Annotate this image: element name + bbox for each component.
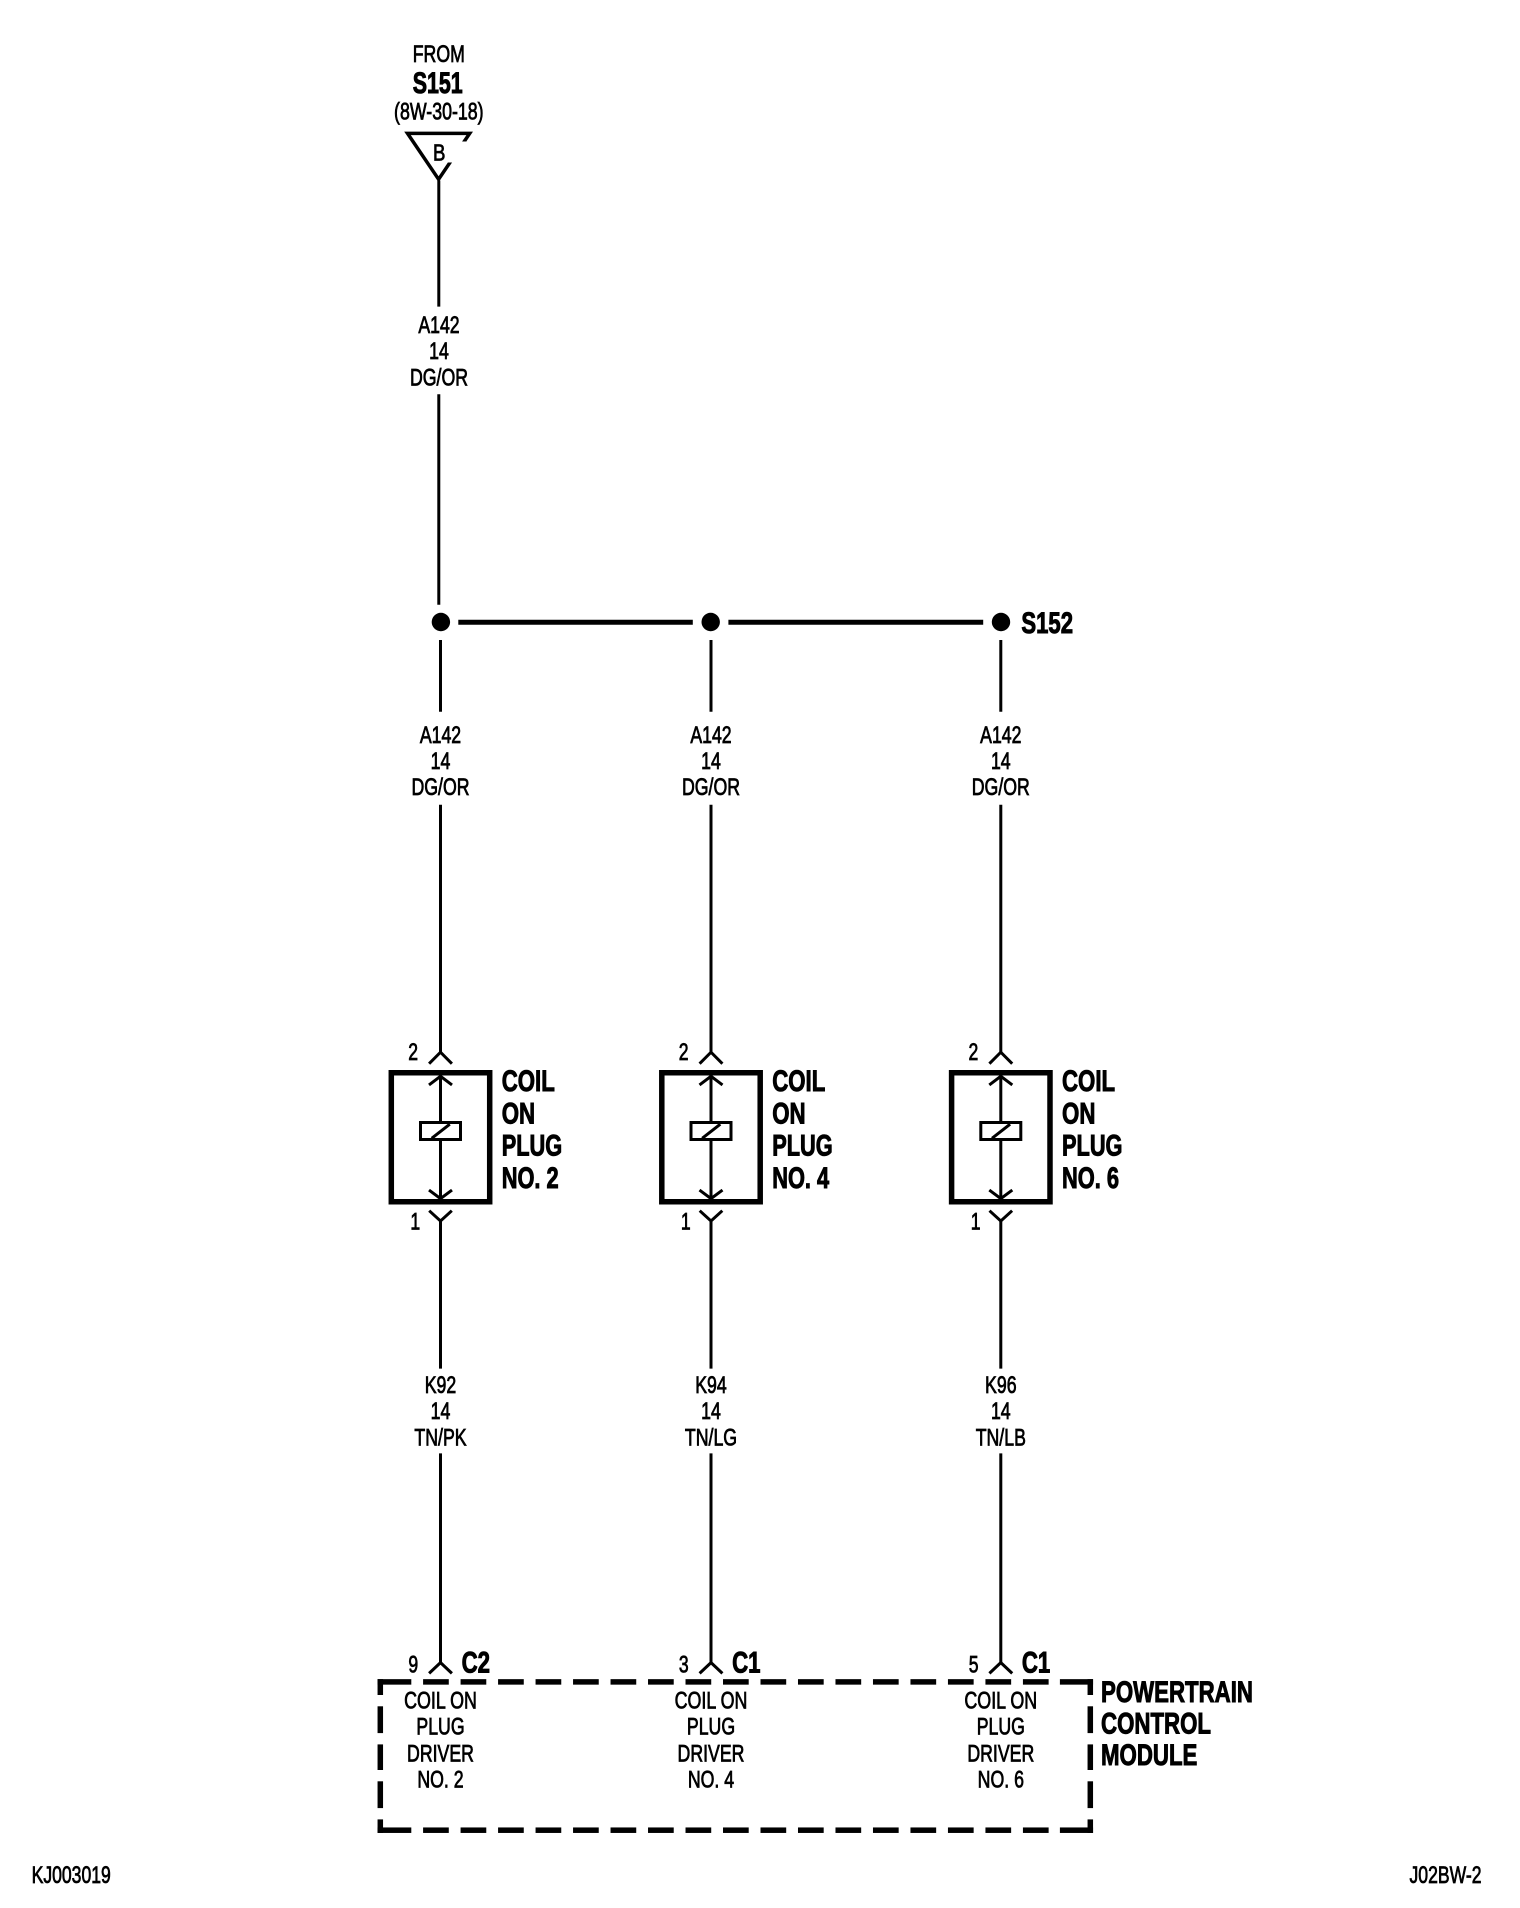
svg-text:C1: C1 (732, 1647, 760, 1680)
svg-text:DG/OR: DG/OR (682, 774, 740, 801)
svg-text:PLUG: PLUG (687, 1714, 735, 1741)
svg-text:2: 2 (679, 1039, 689, 1066)
connector half (inside bottom) col2 (700, 1190, 723, 1199)
coil element symbol col2 (691, 1123, 731, 1140)
svg-text:A142: A142 (980, 722, 1021, 749)
internal wire bottom col2 (710, 1141, 713, 1200)
wire bus segment dot2-dot3 (728, 620, 983, 625)
connector half (outside bottom) col3 (990, 1211, 1013, 1221)
svg-text:PLUG: PLUG (977, 1714, 1025, 1741)
svg-text:KJ003019: KJ003019 (32, 1862, 111, 1889)
wire into PCM col1 (439, 1453, 442, 1662)
PCM connector half col1 (429, 1663, 452, 1674)
wire to PCM col1 (439, 1221, 442, 1369)
powertrain control module dashed box (378, 1679, 412, 1685)
svg-text:COIL: COIL (772, 1065, 825, 1098)
svg-text:1: 1 (681, 1209, 691, 1236)
connector half (outside top) col1 (429, 1052, 452, 1064)
svg-text:3: 3 (679, 1651, 689, 1678)
junction dot at column 2 (702, 613, 720, 631)
connector half (inside top) col3 (989, 1076, 1012, 1085)
svg-text:TN/PK: TN/PK (414, 1424, 467, 1451)
svg-text:S152: S152 (1021, 607, 1073, 640)
svg-text:FROM: FROM (413, 41, 465, 68)
off-page connector triangle B (408, 133, 470, 179)
svg-text:COIL ON: COIL ON (404, 1687, 477, 1714)
coil on plug no. 6 box (952, 1073, 1050, 1202)
svg-text:14: 14 (991, 748, 1011, 775)
svg-text:5: 5 (969, 1651, 979, 1678)
connector half (inside top) col2 (700, 1076, 723, 1085)
svg-text:1: 1 (410, 1209, 420, 1236)
svg-text:POWERTRAIN: POWERTRAIN (1101, 1676, 1253, 1709)
coil on plug no. 4 box (662, 1073, 760, 1202)
internal wire top col2 (710, 1076, 713, 1122)
svg-text:A142: A142 (420, 722, 461, 749)
wire to PCM col2 (710, 1221, 713, 1369)
connector half (outside bottom) col2 (700, 1211, 723, 1221)
wire down to coil col1 (439, 805, 442, 1052)
internal wire bottom col1 (439, 1141, 442, 1200)
svg-text:TN/LG: TN/LG (685, 1424, 737, 1451)
svg-text:CONTROL: CONTROL (1101, 1708, 1211, 1741)
svg-text:DRIVER: DRIVER (678, 1741, 745, 1768)
svg-text:NO. 4: NO. 4 (772, 1162, 829, 1195)
wire down to splice S152 (437, 394, 440, 605)
connector half (inside top) col1 (429, 1076, 452, 1085)
svg-text:(8W-30-18): (8W-30-18) (394, 99, 484, 126)
svg-text:C1: C1 (1022, 1647, 1050, 1680)
internal wire top col3 (999, 1076, 1002, 1122)
svg-text:NO. 4: NO. 4 (688, 1766, 734, 1793)
svg-text:MODULE: MODULE (1101, 1739, 1197, 1772)
svg-text:A142: A142 (418, 312, 459, 339)
svg-text:2: 2 (408, 1039, 418, 1066)
svg-text:1: 1 (971, 1209, 981, 1236)
junction dot S152 at column 3 (992, 613, 1010, 631)
wire from connector B down (437, 181, 440, 307)
wire down to coil col2 (710, 805, 713, 1052)
svg-text:K92: K92 (425, 1372, 457, 1399)
svg-text:B: B (433, 139, 445, 165)
junction dot at column 1 (432, 613, 450, 631)
internal wire top col1 (439, 1076, 442, 1122)
PCM connector half col2 (700, 1663, 723, 1674)
connector half (inside bottom) col1 (429, 1190, 452, 1199)
svg-text:COIL: COIL (502, 1065, 555, 1098)
svg-text:2: 2 (969, 1039, 979, 1066)
svg-text:A142: A142 (690, 722, 731, 749)
svg-text:14: 14 (701, 1398, 721, 1425)
wire bus segment dot1-dot2 (458, 620, 693, 625)
PCM connector half col3 (989, 1663, 1012, 1674)
svg-text:COIL ON: COIL ON (675, 1687, 748, 1714)
svg-text:DRIVER: DRIVER (407, 1741, 474, 1768)
svg-text:PLUG: PLUG (416, 1714, 464, 1741)
svg-text:NO. 2: NO. 2 (502, 1162, 559, 1195)
svg-text:ON: ON (502, 1097, 535, 1130)
coil element symbol col3 (981, 1123, 1021, 1140)
svg-text:14: 14 (431, 1398, 451, 1425)
svg-text:ON: ON (772, 1097, 805, 1130)
svg-text:NO. 6: NO. 6 (978, 1766, 1024, 1793)
svg-text:NO. 2: NO. 2 (417, 1766, 463, 1793)
wire below splice, column 1 (439, 640, 442, 712)
svg-text:PLUG: PLUG (772, 1130, 833, 1163)
connector half (outside top) col3 (989, 1052, 1012, 1064)
wire into PCM col3 (999, 1453, 1002, 1662)
svg-text:S151: S151 (413, 67, 463, 100)
svg-text:DG/OR: DG/OR (972, 774, 1030, 801)
svg-text:14: 14 (991, 1398, 1011, 1425)
wire down to coil col3 (999, 805, 1002, 1052)
connector half (outside top) col2 (700, 1052, 723, 1064)
svg-text:PLUG: PLUG (1062, 1130, 1123, 1163)
svg-text:K96: K96 (985, 1372, 1017, 1399)
coil element symbol col1 (421, 1123, 461, 1140)
svg-text:C2: C2 (462, 1647, 490, 1680)
svg-text:14: 14 (431, 748, 451, 775)
svg-text:14: 14 (701, 748, 721, 775)
connector half (outside bottom) col1 (429, 1211, 452, 1221)
svg-text:COIL ON: COIL ON (964, 1687, 1037, 1714)
wire below splice, column 3 (999, 640, 1002, 712)
coil on plug no. 2 box (391, 1073, 489, 1202)
svg-text:J02BW-2: J02BW-2 (1410, 1862, 1482, 1889)
svg-text:14: 14 (429, 338, 449, 365)
svg-text:9: 9 (408, 1651, 418, 1678)
svg-text:PLUG: PLUG (502, 1130, 563, 1163)
svg-text:DRIVER: DRIVER (967, 1741, 1034, 1768)
connector half (inside bottom) col3 (989, 1190, 1012, 1199)
svg-text:TN/LB: TN/LB (976, 1424, 1026, 1451)
wire into PCM col2 (710, 1453, 713, 1662)
wire to PCM col3 (999, 1221, 1002, 1369)
svg-text:NO. 6: NO. 6 (1062, 1162, 1119, 1195)
internal wire bottom col3 (999, 1141, 1002, 1200)
svg-text:COIL: COIL (1062, 1065, 1115, 1098)
svg-text:DG/OR: DG/OR (410, 364, 468, 391)
svg-text:DG/OR: DG/OR (411, 774, 469, 801)
wire below splice, column 2 (710, 640, 713, 712)
svg-text:ON: ON (1062, 1097, 1095, 1130)
svg-text:K94: K94 (695, 1372, 727, 1399)
